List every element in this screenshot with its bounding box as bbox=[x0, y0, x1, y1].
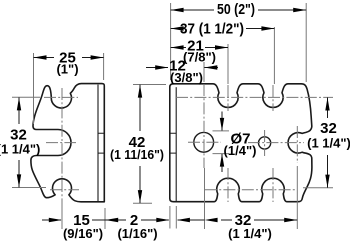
dim 42 bbox=[139, 85, 141, 204]
svg-text:50 (2"): 50 (2") bbox=[217, 1, 255, 18]
dim 21 bbox=[171, 47, 228, 49]
dim 42 arrows bbox=[138, 85, 142, 98]
svg-text:(1/16"): (1/16") bbox=[117, 226, 157, 241]
dim 32 bottom arrows bbox=[205, 218, 218, 222]
dimension lines bbox=[19, 10, 328, 220]
hole 2 (small) bbox=[259, 137, 271, 149]
svg-text:37 (1 1/2"): 37 (1 1/2") bbox=[180, 21, 244, 38]
dim 2 arrows (outside) bbox=[156, 218, 169, 222]
svg-text:(7/8"): (7/8") bbox=[183, 50, 216, 65]
svg-text:(1 1/4"): (1 1/4") bbox=[307, 136, 350, 151]
right view outline bbox=[170, 84, 312, 202]
dim 32 right bbox=[327, 98, 329, 188]
dim 21 arrows bbox=[171, 45, 184, 49]
svg-text:(1"): (1") bbox=[56, 62, 78, 77]
dim 37 arrows bbox=[171, 26, 184, 30]
svg-text:(1 11/16"): (1 11/16") bbox=[110, 147, 164, 162]
hole 1 (big, Ø7) bbox=[194, 132, 214, 152]
arrowheads bbox=[17, 8, 330, 222]
dim 37 bbox=[171, 28, 275, 30]
left view inner edge line bbox=[97, 85, 99, 202]
dim 15 arrows (outside) bbox=[49, 218, 62, 222]
dim 12 arrows (outside) bbox=[155, 65, 168, 69]
dia 7 leaders bbox=[221, 112, 223, 173]
svg-text:(1/4"): (1/4") bbox=[224, 143, 257, 158]
left view inner tick marks bbox=[98, 133, 104, 153]
dim 32 right arrows bbox=[325, 98, 329, 111]
dim 25 bbox=[34, 57, 104, 59]
dim 25 arrows bbox=[34, 55, 47, 59]
svg-text:(1 1/4"): (1 1/4") bbox=[0, 142, 40, 157]
svg-text:(3/8"): (3/8") bbox=[170, 70, 203, 85]
dim 32 left arrows bbox=[17, 97, 21, 110]
svg-text:32: 32 bbox=[320, 120, 337, 137]
dia7 arrows bbox=[220, 118, 224, 131]
bottom dims row bbox=[42, 219, 297, 221]
dim 50 arrows bbox=[171, 8, 184, 12]
centerlines (dash-dot) bbox=[44, 84, 333, 202]
dim 50 bbox=[171, 9, 307, 11]
right view inner edge line bbox=[175, 87, 177, 201]
left view outline bbox=[31, 84, 104, 202]
dim 32 left bbox=[18, 97, 20, 187]
dim 12 bbox=[146, 67, 218, 69]
svg-text:(1 1/4"): (1 1/4") bbox=[228, 226, 272, 241]
svg-text:(9/16"): (9/16") bbox=[63, 226, 103, 241]
right view inner tick marks bbox=[170, 133, 176, 153]
